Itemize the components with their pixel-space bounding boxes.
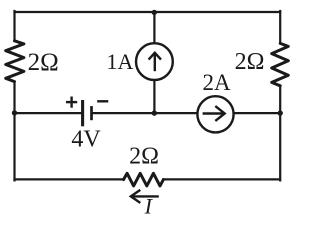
wire left lower (13, 82, 15, 181)
wire left upper (13, 11, 15, 41)
wire bottom left (15, 178, 124, 180)
svg-text:2Ω: 2Ω (129, 144, 159, 170)
battery V1 long plate plus (81, 100, 84, 126)
svg-text:1A: 1A (107, 49, 134, 74)
wire middle right (234, 112, 281, 114)
current source I1 circle (136, 43, 173, 80)
node dot top center (152, 10, 157, 15)
resistor R1 left 2ohm zigzag (6, 41, 24, 82)
wire top (15, 11, 281, 13)
current source I2 arrow right (203, 106, 225, 121)
svg-text:2Ω: 2Ω (235, 49, 265, 75)
node dot right middle (278, 110, 283, 115)
svg-text:2Ω: 2Ω (28, 49, 59, 76)
resistor R2 right 2ohm zigzag (272, 43, 289, 85)
node dot center middle (152, 110, 157, 115)
svg-text:4V: 4V (71, 127, 101, 153)
resistor R3 bottom 2ohm zigzag (124, 173, 164, 186)
current I arrow left (131, 190, 159, 203)
wire bottom right (163, 178, 280, 180)
wire right upper (279, 11, 281, 43)
current source I1 arrow up (149, 53, 161, 71)
wire middle vertical upper (153, 12, 155, 43)
current source I2 circle (197, 96, 233, 132)
wire middle left (15, 112, 82, 114)
node dot left middle (12, 110, 17, 115)
battery V1 short plate minus (90, 106, 93, 120)
svg-text:2A: 2A (203, 70, 232, 95)
wire middle center (93, 112, 197, 114)
battery V1 plus sign (66, 97, 77, 108)
battery V1 minus sign (97, 100, 108, 102)
wire middle vertical lower (153, 80, 155, 113)
wire right lower (279, 86, 281, 181)
